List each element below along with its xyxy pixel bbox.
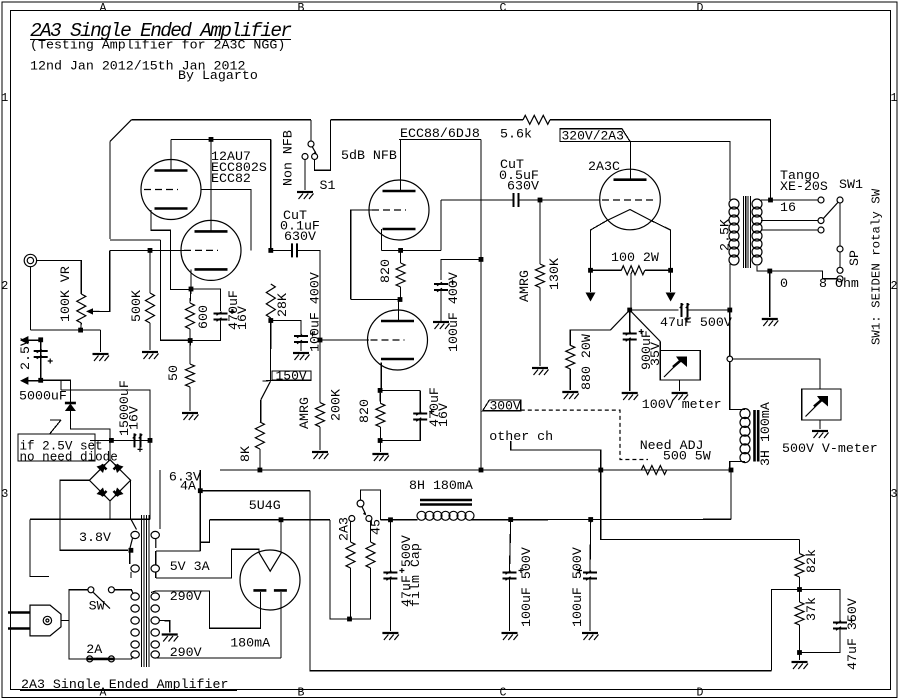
ground 290V center tap	[162, 633, 178, 635]
svg-text:5.6k: 5.6k	[500, 127, 532, 142]
tube V2b ECC88 lower triode	[368, 310, 428, 370]
wire ECC88 label underline plate feed	[399, 138, 481, 140]
tube V1a 12AU7 upper triode	[141, 160, 201, 220]
wire 290V top tap	[151, 591, 261, 628]
wire 470uF cathode2 bottom	[380, 420, 420, 441]
wire 0 tap ground lead	[769, 271, 771, 317]
wire 2A3 filament left	[591, 221, 608, 271]
svg-text:XE-20S: XE-20S	[780, 179, 828, 194]
junction cathode bottom	[188, 338, 193, 343]
choke L2 3H core	[755, 410, 759, 462]
wire 28K node down	[270, 321, 272, 382]
capacitor 100uF 400V stage1	[294, 336, 308, 342]
wire B+ bus vertical	[480, 139, 482, 470]
svg-text:C: C	[500, 2, 507, 15]
wire 200K bottom	[319, 427, 321, 450]
resistor 82k	[795, 554, 804, 577]
wire diode bypass riser	[60, 380, 62, 390]
wire V2a cathode node	[382, 249, 442, 251]
svg-text:100uF 400V: 100uF 400V	[446, 272, 461, 352]
wire meter M2 ground lead	[819, 420, 821, 429]
junction B+ other-ch node	[598, 468, 603, 473]
wire V2a plate lead	[400, 139, 402, 191]
wire pot bottom bus	[30, 329, 100, 331]
svg-text:2A3C: 2A3C	[588, 159, 620, 174]
junction 16 tap NFB	[768, 198, 773, 203]
wire B+ run	[220, 469, 731, 471]
junction 28K bottom	[268, 318, 273, 323]
wire V2b cathode lead	[380, 363, 382, 391]
wire into 100V meter	[659, 342, 661, 351]
wire NFB left drop	[109, 141, 111, 239]
wire 5V winding bottom tap	[156, 549, 259, 578]
wire to coupling cap	[271, 249, 292, 251]
svg-text:3: 3	[891, 488, 898, 501]
junction filament right	[668, 268, 673, 273]
ground 100uF stage1	[293, 352, 309, 354]
diode D1	[65, 402, 76, 405]
ground 50	[182, 412, 198, 414]
capacitor 47uF 350V	[833, 623, 847, 629]
junction 8K B+	[258, 468, 263, 473]
wire cathode bypass top	[191, 289, 221, 311]
wire rectified rail left	[210, 519, 330, 521]
transformer T2 right coil 6.3V	[151, 531, 159, 538]
resistor 820 upper	[396, 263, 405, 287]
junction 15000uF left	[109, 438, 114, 443]
resistor 5.6k NFB	[523, 115, 550, 124]
capacitor 100uF 500V second	[583, 573, 597, 579]
wire 130K top	[539, 200, 541, 264]
wire B+ to right column	[601, 470, 800, 540]
wire cathode bypass bottom	[190, 320, 220, 341]
svg-text:0: 0	[780, 276, 788, 291]
wire SW1 mid to low	[839, 252, 841, 267]
wire 3.8V bump lead	[130, 538, 133, 548]
svg-text:SW1: SW1	[839, 177, 863, 192]
wire 2A3 filament right	[651, 221, 671, 271]
wire V2b cathode node	[380, 389, 420, 391]
wire SRPP mid	[351, 299, 401, 301]
resistor 820 lower	[376, 403, 385, 427]
switch S1 contact left	[302, 154, 308, 160]
ground filter cap2	[582, 632, 598, 634]
svg-text:4A: 4A	[180, 479, 196, 494]
svg-text:5000uF: 5000uF	[19, 389, 67, 404]
wire to 0.5uF	[441, 199, 514, 201]
svg-text:100uF 500V: 100uF 500V	[570, 547, 585, 627]
wire NFB run left	[331, 119, 524, 121]
wire 600 bottom	[189, 329, 191, 341]
svg-text:other ch: other ch	[489, 429, 553, 444]
svg-text:ECC88/6DJ8: ECC88/6DJ8	[400, 126, 480, 141]
net label 300V flag	[483, 400, 521, 411]
svg-text:5U4G: 5U4G	[249, 498, 281, 513]
resistor 500K	[146, 293, 155, 323]
resistor 50	[186, 364, 195, 387]
wire switch to primary	[114, 590, 132, 593]
wire 820 upper leads	[400, 250, 402, 263]
wire 15000uF down to 3.8V winding	[149, 440, 151, 519]
wire 200K top	[319, 340, 321, 403]
meter M2 needle	[806, 397, 826, 417]
wire bridge ac left	[60, 480, 128, 550]
tube V3 2A3C	[600, 169, 661, 230]
potentiometer VR1 wiper arrow	[90, 310, 100, 312]
svg-text:16V: 16V	[436, 403, 451, 427]
wire 6.3V vertical	[199, 470, 201, 551]
junction divider mid	[797, 587, 802, 592]
wire right plate lead	[280, 592, 282, 658]
junction bridge ac at winding	[129, 548, 134, 553]
capacitor 15000uF 16V	[135, 433, 141, 447]
svg-text:film Cap: film Cap	[408, 543, 423, 607]
switch SW mains b	[108, 587, 114, 593]
resistor 37k	[795, 602, 804, 625]
wire 100uF stage2 ground lead	[440, 290, 442, 321]
junction 2A3 grid leak	[538, 198, 543, 203]
wire 3.8V left stub	[30, 519, 49, 576]
junction B+ 100uF tap	[479, 257, 484, 262]
svg-text:2: 2	[1, 280, 8, 293]
bottom sheet title underline	[20, 690, 237, 692]
svg-text:16V: 16V	[127, 406, 142, 430]
resistor 600	[186, 303, 195, 329]
wire cathode to 47uF	[630, 309, 679, 311]
capacitor 47uF 500V	[682, 303, 688, 317]
arrow 2.5V top	[20, 336, 28, 344]
switch S1 common contact	[308, 141, 314, 147]
ground meter M1	[672, 392, 688, 394]
ground meter M2	[812, 430, 828, 432]
meter M1 needle	[664, 357, 684, 377]
svg-text:By Lagarto: By Lagarto	[178, 68, 258, 83]
wire V1a grid lead	[201, 190, 251, 251]
transformer T1 primary coil	[729, 199, 739, 209]
transformer T2 right coil 290V	[151, 593, 159, 600]
svg-text:SP: SP	[847, 250, 862, 266]
resistor AMRG 130K	[536, 264, 545, 288]
wire 3.8V run	[30, 518, 150, 520]
wire OPT secondary 0 tap	[757, 266, 837, 279]
tube V1b 12AU7 lower triode	[181, 220, 241, 280]
wire 6.3V bump lead	[155, 539, 157, 549]
junction filter cap2	[588, 517, 593, 522]
terminal 16 ohm	[818, 197, 824, 203]
wire B+ from 500 5W down	[730, 470, 732, 519]
wire jack shell down	[29, 267, 31, 330]
capacitor 47uF 500V film	[383, 573, 397, 579]
svg-text:16V: 16V	[235, 306, 250, 330]
wire S1 common	[310, 120, 312, 141]
choke L1 8H core	[420, 500, 472, 505]
title underline	[30, 39, 291, 41]
svg-text:130K: 130K	[547, 258, 562, 290]
wire bridge plus output	[109, 440, 111, 459]
wire 150V diagonal jog	[261, 381, 271, 400]
svg-text:1: 1	[891, 92, 898, 105]
svg-text:630V: 630V	[284, 229, 316, 244]
wire V2b grid wire	[320, 339, 369, 341]
wire V-meter tap run	[733, 359, 820, 389]
wire 2A3 plate lead	[629, 141, 631, 179]
wire grid line	[110, 249, 184, 251]
wire 290V bottom tap	[155, 657, 281, 659]
resistor 28K	[266, 284, 275, 318]
wire SW1 top to mid	[839, 203, 841, 246]
resistor 100 2W	[621, 266, 645, 275]
wire 15000uF rail	[90, 439, 150, 441]
wire pot wiper to grid line	[100, 250, 110, 311]
junction bias bottom	[347, 617, 352, 622]
svg-text:820: 820	[357, 399, 372, 423]
svg-text:8K: 8K	[238, 446, 253, 462]
capacitor CuT 0.5uF 630V	[514, 193, 519, 207]
transformer T1 secondary coil	[752, 199, 762, 209]
junction V2b cathode bottom	[378, 438, 383, 443]
wire V1b plate lead	[210, 139, 212, 231]
junction filter cap1	[508, 517, 513, 522]
svg-text:SW: SW	[89, 599, 105, 614]
terminal 8 ohm	[837, 276, 843, 282]
wire right column riser	[771, 590, 799, 671]
terminal tap2	[818, 218, 824, 224]
svg-text:50: 50	[166, 365, 181, 381]
wire V1b cathode lead	[190, 269, 192, 289]
svg-text:100 2W: 100 2W	[611, 250, 659, 265]
bridge diode D3	[114, 464, 123, 473]
wire 82k bottom	[799, 577, 801, 590]
comment box if 2.5V set no need diode	[18, 434, 95, 461]
ground 200K	[312, 451, 328, 453]
junction divider bottom	[797, 650, 802, 655]
transformer T2 left coil 3.8V	[131, 531, 139, 538]
svg-text:AMRG: AMRG	[517, 270, 532, 302]
junction V2a cathode	[398, 248, 403, 253]
ground film cap	[382, 632, 398, 634]
wire V1a cathode lead	[151, 210, 190, 290]
svg-text:880 20W: 880 20W	[579, 334, 594, 390]
svg-text:28K: 28K	[275, 293, 290, 317]
svg-text:820: 820	[378, 259, 393, 283]
wire OPT primary bottom lead	[729, 264, 731, 310]
wire to 880 20W	[570, 330, 610, 345]
svg-text:150V: 150V	[276, 369, 307, 384]
arrow filament supply left	[590, 270, 592, 292]
ground 500K	[142, 351, 158, 353]
svg-text:8 Ohm: 8 Ohm	[819, 276, 859, 291]
svg-text:S1: S1	[320, 178, 336, 193]
junction filament left	[588, 268, 593, 273]
wire 50 to ground	[189, 387, 191, 411]
wire 2A3 resistor bottom	[350, 568, 352, 619]
meter M2 500V box	[802, 389, 841, 420]
transformer T2 left coil primary	[131, 593, 139, 600]
net label 320V/2A3 flag	[560, 129, 630, 142]
wire 500K bottom	[149, 323, 151, 350]
wire fuse to primary	[114, 657, 132, 659]
wire V2a cathode lead	[381, 229, 383, 250]
wire choke out rail	[471, 518, 731, 521]
transformer T2 left coil mid	[131, 565, 139, 572]
svg-text:320V/2A3: 320V/2A3	[562, 129, 624, 144]
switch SW1 wiper	[824, 203, 838, 219]
wire meter M1 ground lead	[679, 380, 681, 391]
wire 0.5uF to 2A3 grid	[519, 199, 601, 201]
switch SW1 top contact	[837, 197, 843, 203]
wire coupling cap to ECC88 grid	[297, 250, 320, 340]
svg-text:ECC82: ECC82	[211, 171, 251, 186]
wire S2 common	[361, 490, 381, 520]
wire 130K bottom	[539, 288, 541, 367]
wire 100uF stage1 to ground	[300, 342, 302, 351]
svg-text:500K: 500K	[129, 290, 144, 322]
wire film cap ground lead	[389, 579, 391, 632]
wire Y diag left	[610, 310, 629, 330]
comment leader line	[50, 420, 61, 434]
svg-text:2A3 Single Ended Amplifier: 2A3 Single Ended Amplifier	[21, 677, 228, 692]
wire OPT node down	[729, 310, 731, 356]
switch S2 top contact	[357, 500, 364, 507]
svg-text:100K VR: 100K VR	[58, 266, 73, 322]
wire 82k top	[799, 540, 801, 554]
svg-text:3H 100mA: 3H 100mA	[758, 402, 773, 466]
wire to 8K	[260, 400, 262, 422]
svg-text:5dB NFB: 5dB NFB	[341, 148, 397, 163]
junction V1b cathode	[189, 287, 194, 292]
svg-text:600: 600	[196, 305, 211, 329]
wire hum pot center tap	[631, 270, 633, 310]
svg-text:2A3: 2A3	[337, 517, 352, 541]
wire V1a plate lead	[170, 139, 172, 170]
svg-text:2.5V: 2.5V	[18, 338, 33, 370]
resistor 500 5W	[641, 466, 666, 475]
wire cathode to 600	[190, 289, 191, 303]
transformer T2 right coil 5V	[151, 565, 159, 572]
ground S1	[297, 191, 313, 193]
wire 500K top	[149, 250, 151, 293]
switch SW1 mid contact	[837, 246, 843, 252]
wire V2b plate lead	[398, 300, 400, 322]
wire NFB corner diagonal	[110, 120, 131, 142]
tube V2a ECC88 upper triode	[369, 180, 429, 240]
capacitor 100uF 500V first	[503, 573, 517, 579]
wire plug to switch	[61, 590, 88, 621]
wire pot ground branch	[100, 330, 102, 352]
switch SW lever	[93, 592, 110, 608]
wire filter cap2 lead	[589, 520, 592, 572]
wire 2A3 plate to OPT	[630, 141, 730, 200]
wire 6.3V run	[200, 490, 310, 492]
junction 6.3V node	[198, 488, 203, 493]
ground 820 lower	[372, 453, 388, 455]
svg-text:(Testing Amplifier for 2A3C NG: (Testing Amplifier for 2A3C NGG)	[30, 38, 285, 53]
svg-text:3.8V: 3.8V	[79, 530, 111, 545]
wire OPT secondary tap2	[761, 220, 818, 222]
wire 50 top	[189, 341, 191, 365]
svg-text:37k: 37k	[804, 597, 819, 621]
svg-text:2: 2	[891, 280, 898, 293]
svg-text:180mA: 180mA	[230, 636, 270, 651]
capacitor CuT 0.1uF 630V	[292, 243, 297, 257]
wire NFB feed to cathode	[110, 239, 160, 241]
wire filter cap1 ground lead	[509, 579, 511, 632]
svg-text:C: C	[500, 687, 507, 700]
wire SRPP output riser	[440, 200, 442, 250]
wire pot bottom	[80, 323, 83, 330]
terminal tap3	[818, 227, 824, 233]
diode bridge outline	[89, 460, 130, 501]
junction OPT primary bottom node	[727, 308, 732, 313]
svg-text:D: D	[697, 2, 704, 15]
switch S2 contact 45	[366, 516, 372, 522]
wire 2.5V cap column	[40, 340, 42, 381]
junction 28K top	[268, 248, 273, 253]
svg-text:2A: 2A	[86, 642, 102, 657]
wire bridge minus to 3.8V wire	[109, 501, 111, 519]
wire 28K bottom	[270, 318, 272, 321]
ground 100uF stage2	[433, 321, 449, 323]
wire OPT secondary 16 tap	[761, 199, 818, 201]
choke L2 3H coil	[740, 409, 750, 419]
resistor bias 2A3	[346, 542, 355, 568]
junction 2.5V top	[38, 337, 43, 342]
resistor 8K	[255, 422, 264, 449]
junction 2.5V bottom	[38, 378, 43, 383]
wire 290V center tap	[159, 621, 169, 633]
terminal V-meter tap	[727, 356, 733, 362]
choke L1 8H coil	[417, 511, 426, 520]
junction pot bottom	[78, 328, 83, 333]
svg-text:47uF 500V: 47uF 500V	[660, 315, 732, 330]
switch SW1 low contact	[837, 267, 843, 273]
wire plate bus down	[270, 139, 272, 250]
svg-text:B: B	[298, 2, 305, 15]
wire S1 right to NFB line	[315, 120, 331, 171]
svg-text:AMRG: AMRG	[297, 397, 312, 429]
svg-text:SW1: SEIDEN rotaly SW: SW1: SEIDEN rotaly SW	[870, 188, 884, 345]
tube V4 5U4G	[240, 550, 300, 610]
wire 820 upper bottom	[400, 287, 402, 300]
ground 130K	[532, 367, 548, 369]
wire V2a grid lead	[351, 210, 372, 300]
wire 47uF350V bottom	[800, 629, 841, 653]
wire 820 lower top	[379, 390, 381, 403]
AC plug	[30, 605, 61, 636]
junction 15000uF right	[148, 438, 153, 443]
bridge diode D4	[97, 488, 106, 497]
svg-text:no need diode: no need diode	[20, 451, 118, 465]
svg-text:47uF 350V: 47uF 350V	[845, 598, 860, 670]
wire 47uF350V top	[800, 590, 841, 622]
wire 37k leads	[799, 590, 801, 603]
resistor 880 20W	[566, 345, 575, 369]
capacitor 470uF 16V cathode	[214, 314, 228, 320]
wire choke 3H top lead	[730, 362, 745, 410]
svg-text:630V: 630V	[507, 179, 539, 194]
wire B+ to 100uF stage2	[441, 259, 481, 280]
wire first stage decoupling	[271, 321, 301, 335]
svg-text:B: B	[298, 687, 305, 700]
junction V1b plate	[209, 137, 214, 142]
transformer T1 core	[744, 196, 751, 268]
wire 470uF cathode2 top	[419, 390, 421, 413]
wire 8K bottom	[259, 449, 261, 470]
wire input jack to volume pot	[37, 261, 82, 295]
net label 150V flag	[263, 371, 311, 381]
wire OPT secondary tap3	[761, 229, 818, 231]
wire 6.3V winding top stub	[159, 470, 161, 529]
